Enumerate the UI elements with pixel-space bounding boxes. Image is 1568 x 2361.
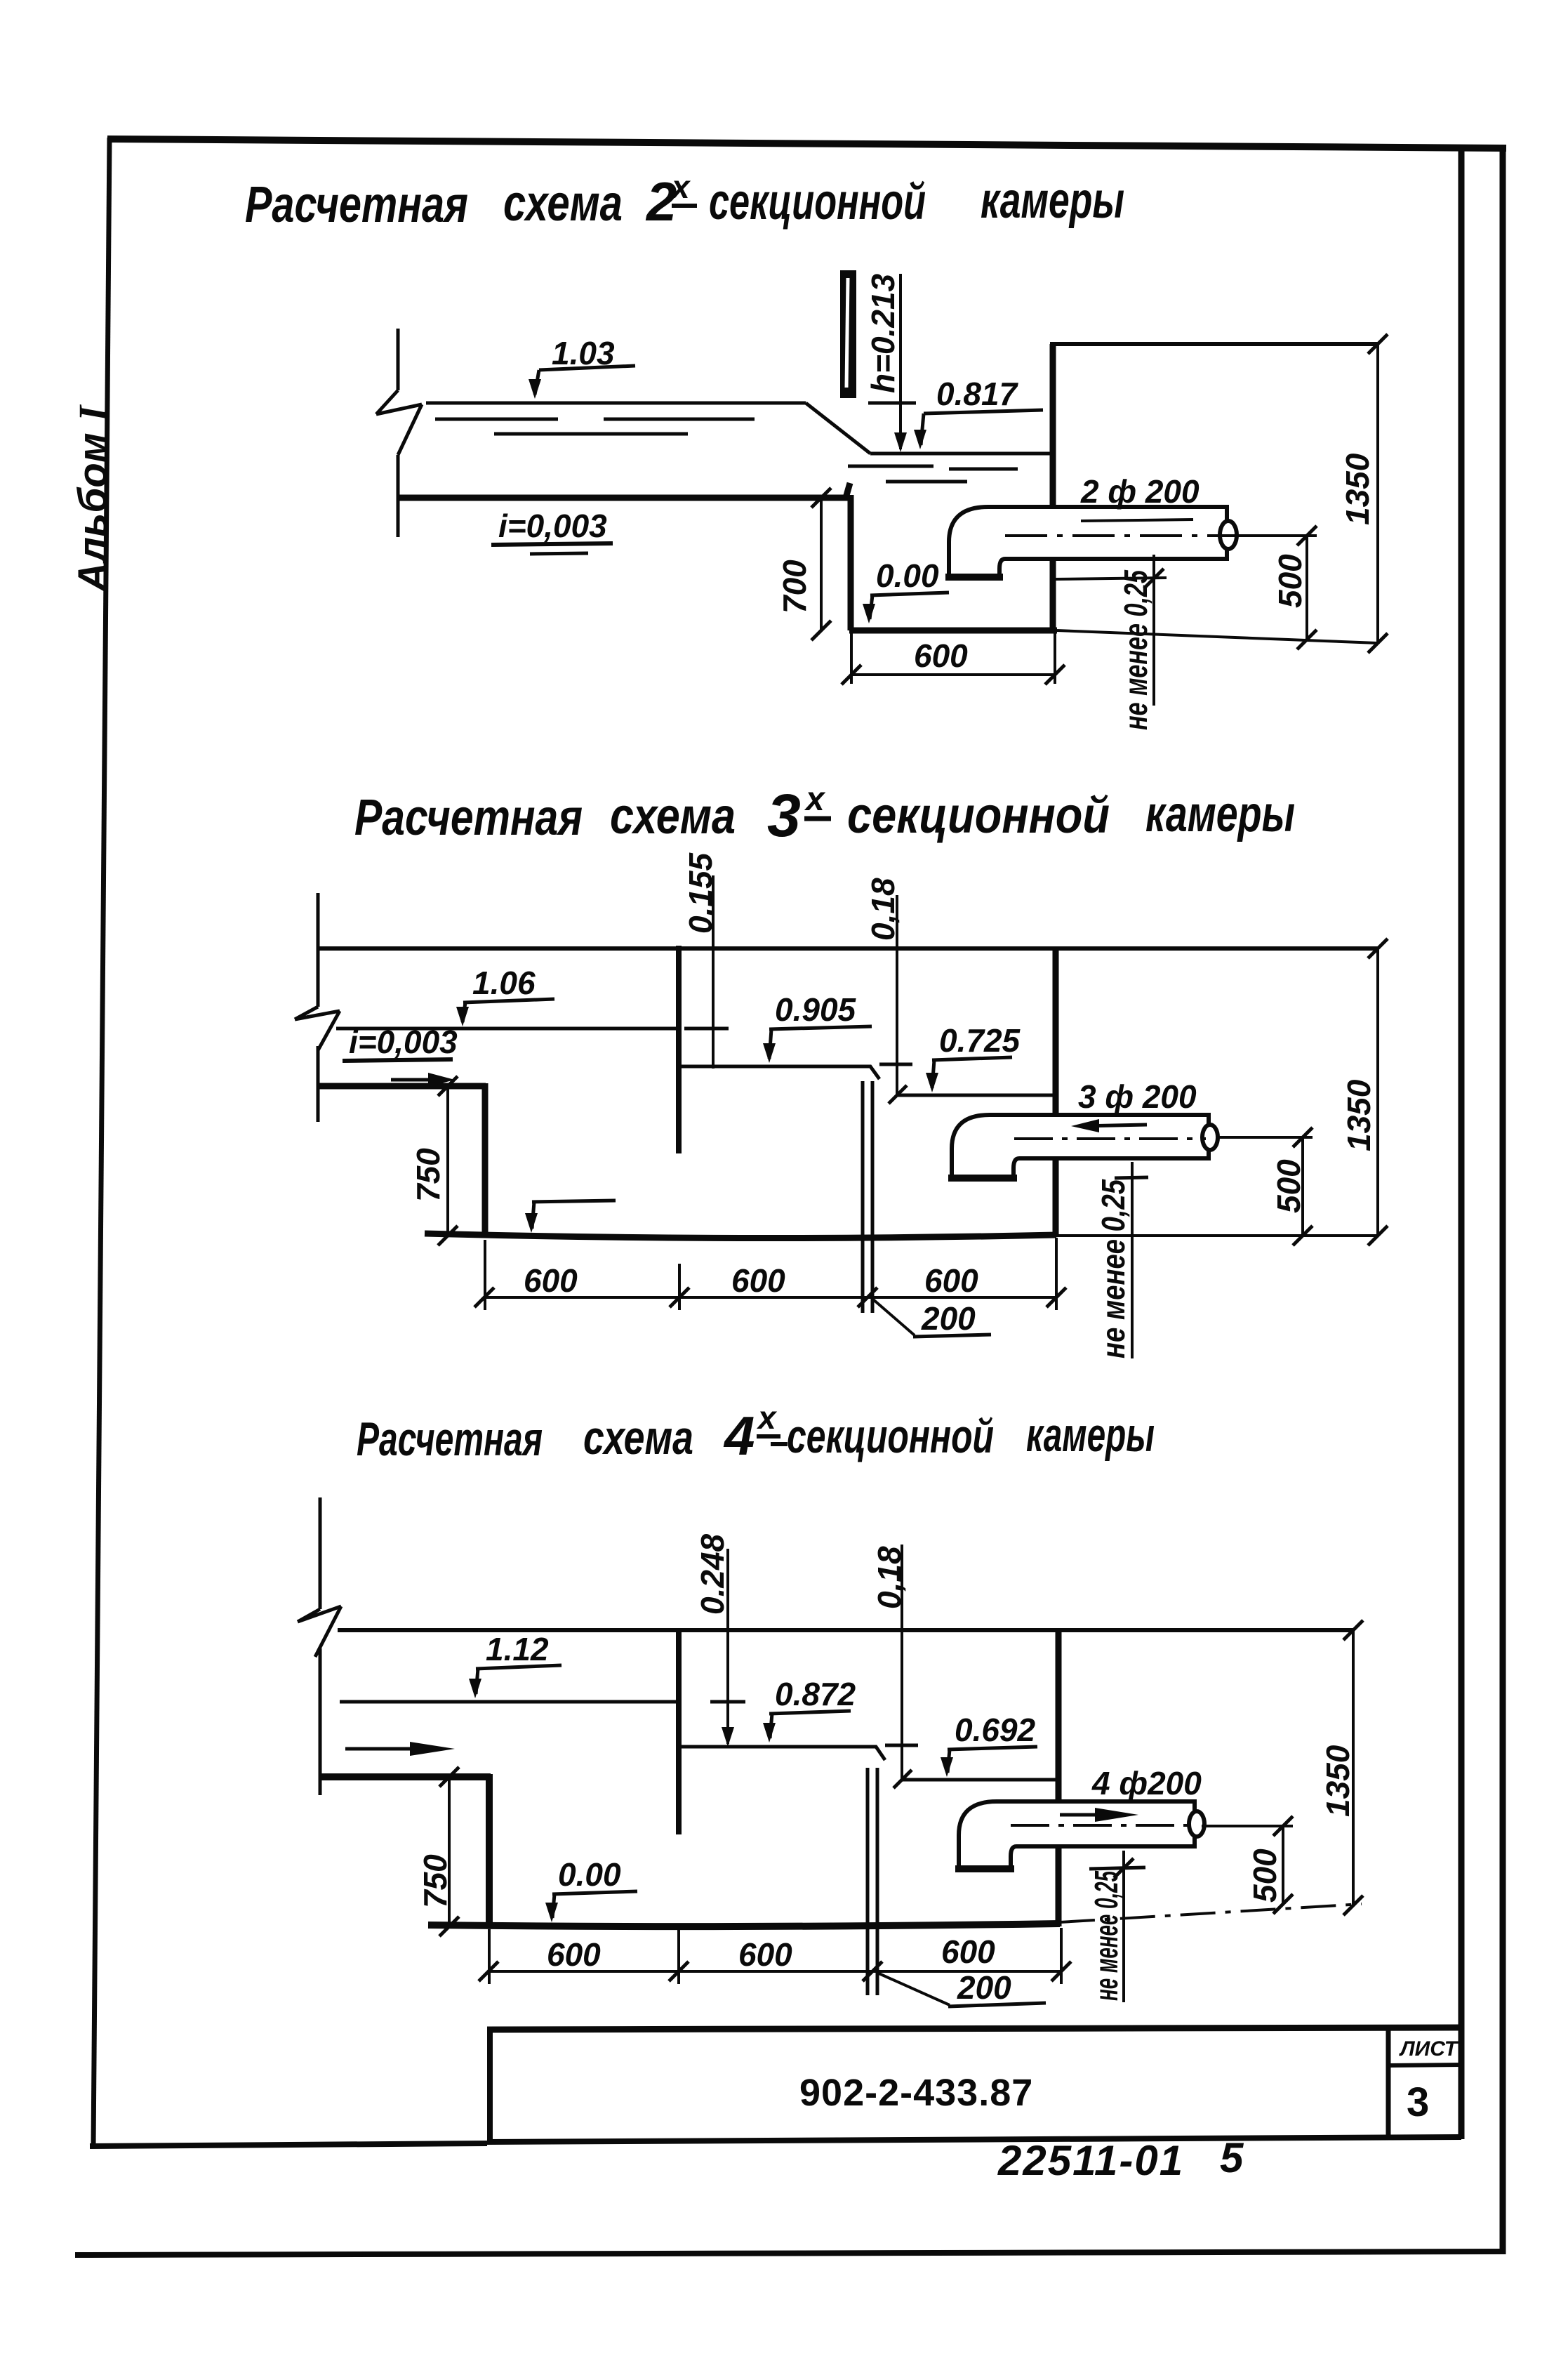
ceiling line <box>318 946 1378 951</box>
water surface 1 <box>426 402 806 405</box>
water surface 3 <box>902 1778 1058 1782</box>
svg-text:1350: 1350 <box>1339 453 1376 525</box>
svg-text:200: 200 <box>921 1300 976 1337</box>
pit floor <box>428 1924 1060 1926</box>
tick ceiling/1350 <box>1368 939 1388 958</box>
svg-text:Расчетная: Расчетная <box>245 177 468 233</box>
leader 0.00 <box>545 1891 637 1922</box>
svg-text:0.155: 0.155 <box>682 852 719 934</box>
water surface 3 <box>897 1094 1056 1097</box>
dimension 500 <box>1221 526 1317 649</box>
pit floor extension <box>1057 630 1378 643</box>
svg-text:5: 5 <box>1220 2134 1244 2181</box>
dimension 700 <box>811 488 831 640</box>
svg-text:0.817: 0.817 <box>936 376 1019 412</box>
ceiling line <box>338 1628 1353 1632</box>
border frame left <box>93 138 109 2147</box>
water surface 2 <box>870 452 1050 456</box>
svg-text:0.725: 0.725 <box>939 1022 1021 1059</box>
svg-text:0.00: 0.00 <box>558 1856 621 1893</box>
dimension 1350 <box>1343 1630 1363 1915</box>
svg-text:0,18: 0,18 <box>865 878 901 941</box>
weir plate (hatched bar) <box>840 270 856 398</box>
tick water 3 <box>893 1770 912 1788</box>
svg-text:500: 500 <box>1247 1849 1283 1903</box>
svg-text:600: 600 <box>524 1262 578 1299</box>
flow arrow <box>345 1747 421 1751</box>
water slope over weir <box>806 403 870 454</box>
title block bottom <box>487 2137 1461 2142</box>
title block top <box>487 2028 1461 2030</box>
partition 2 (double line) <box>868 1768 877 1995</box>
pipe end cap <box>1202 1125 1218 1150</box>
svg-text:200: 200 <box>957 1969 1011 2006</box>
dimension 500 <box>1202 1816 1293 1914</box>
title 2: Расчетная схема 3х секционной камеры <box>354 781 1295 849</box>
svg-text:750: 750 <box>417 1854 453 1908</box>
dimension 0,18 extension <box>879 895 912 1095</box>
label i=0.003 <box>491 508 613 554</box>
leader 200 <box>872 1299 991 1337</box>
pipe end cap <box>1189 1811 1204 1837</box>
svg-text:схема: схема <box>503 176 623 232</box>
pipe centerline <box>1014 1137 1206 1140</box>
partition 1 <box>676 1630 682 1834</box>
svg-text:секционной: секционной <box>787 1410 994 1463</box>
border frame bottom <box>90 2143 487 2146</box>
svg-text:секционной: секционной <box>847 788 1110 844</box>
partition 1 <box>676 946 682 1153</box>
svg-text:1.03: 1.03 <box>552 335 615 371</box>
svg-text:1350: 1350 <box>1341 1079 1377 1151</box>
leader 0.692 <box>941 1747 1037 1777</box>
leader 1.06 <box>456 999 554 1026</box>
svg-text:500: 500 <box>1272 554 1308 608</box>
water surface 2 <box>681 1066 879 1079</box>
bottom dimension chain 600/600/600 <box>474 1238 1066 1310</box>
svg-text:600: 600 <box>914 637 968 674</box>
tick ceiling/1350 <box>1343 1620 1363 1640</box>
pit floor dash-dot extension <box>1060 1904 1362 1922</box>
drop wall <box>486 1774 493 1926</box>
svg-text:Альбом I: Альбом I <box>70 404 116 593</box>
pit floor <box>849 628 1057 634</box>
svg-text:4 ф200: 4 ф200 <box>1091 1765 1202 1801</box>
pit floor extension <box>1056 1234 1378 1237</box>
leader 0.725 <box>926 1057 1012 1092</box>
leader 0.872 <box>763 1711 851 1742</box>
drop wall <box>482 1083 489 1237</box>
pipe elbow mouth <box>945 574 1003 581</box>
dimension 750 <box>439 1767 459 1936</box>
dimension 500 <box>1217 1127 1313 1245</box>
лист box divider horizontal <box>1388 2065 1461 2065</box>
svg-text:750: 750 <box>410 1148 446 1202</box>
pipe 2x200 body <box>949 507 1227 578</box>
channel left edge line with break <box>298 1497 341 1795</box>
svg-text:i=0,003: i=0,003 <box>498 508 607 544</box>
tick ceiling/1350 <box>1368 334 1388 354</box>
bottom dimension chain 600/600/600 <box>479 1926 1071 1984</box>
label i=0.003 <box>343 1024 458 1061</box>
svg-text:Расчетная: Расчетная <box>354 790 583 846</box>
svg-text:h=0.213: h=0.213 <box>865 274 901 393</box>
svg-text:0.872: 0.872 <box>775 1676 856 1712</box>
svg-text:не менее 0,25: не менее 0,25 <box>1088 1870 1124 2001</box>
h dimension line <box>868 274 916 452</box>
svg-text:600: 600 <box>941 1933 995 1970</box>
pipe 3x200 body <box>952 1115 1209 1179</box>
leader 0.817 <box>914 410 1043 449</box>
svg-text:х: х <box>670 168 691 205</box>
water dashes <box>435 419 1018 482</box>
chamber ceiling <box>1050 342 1378 346</box>
svg-text:х: х <box>756 1399 778 1436</box>
svg-text:700: 700 <box>776 560 813 614</box>
svg-text:0,18: 0,18 <box>871 1546 908 1609</box>
svg-text:камеры: камеры <box>981 173 1124 229</box>
pipe 4x200 body <box>959 1801 1195 1870</box>
svg-text:600: 600 <box>924 1262 978 1299</box>
pipe end cap <box>1220 521 1237 549</box>
dimension 1350 <box>1368 948 1388 1245</box>
dimension 750 <box>438 1076 458 1245</box>
svg-text:0.00: 0.00 <box>876 557 939 594</box>
flow arrow on floor <box>391 1078 435 1082</box>
svg-text:1.12: 1.12 <box>486 1631 549 1667</box>
leader 200 <box>877 1973 1046 2006</box>
dimension 600 (bottom) <box>842 633 1065 685</box>
right chamber wall <box>1050 344 1056 630</box>
dimension 0.248 extension <box>710 1549 745 1747</box>
svg-text:600: 600 <box>731 1262 785 1299</box>
pipe flow arrow (left) <box>1071 1119 1147 1132</box>
svg-text:3: 3 <box>1407 2079 1429 2125</box>
border frame outer right <box>1500 145 1506 2254</box>
svg-text:4: 4 <box>723 1405 755 1467</box>
svg-text:Расчетная: Расчетная <box>357 1413 543 1466</box>
extension line не менее 0,25 <box>1115 1162 1148 1358</box>
leader (unlabeled 0.00) <box>525 1201 616 1233</box>
extension line не менее 0,25 <box>1089 1851 1145 2002</box>
title block left <box>487 2028 493 2143</box>
water surface 2 <box>679 1747 885 1760</box>
pipe elbow mouth <box>955 1865 1014 1872</box>
water surface 1 <box>336 1027 677 1031</box>
dimension 0,18 extension <box>885 1545 918 1780</box>
channel floor <box>398 483 850 498</box>
svg-text:схема: схема <box>583 1411 693 1464</box>
title 3: Расчетная схема 4х-секционной камеры <box>357 1399 1155 1467</box>
svg-text:камеры: камеры <box>1145 786 1295 842</box>
leader 1.03 <box>529 366 635 399</box>
svg-text:схема: схема <box>610 788 736 845</box>
svg-text:секционной: секционной <box>709 174 926 230</box>
border frame top <box>107 139 1506 148</box>
channel left edge line with break <box>295 893 340 1122</box>
svg-text:не менее 0,25: не менее 0,25 <box>1095 1179 1131 1358</box>
pipe inner line <box>1081 520 1193 521</box>
right chamber wall <box>1056 1630 1062 1926</box>
leader 1.12 <box>469 1665 562 1698</box>
pit floor (slight sag) <box>425 1234 1056 1238</box>
dimension 1350 <box>1368 344 1388 653</box>
svg-text:ЛИСТ: ЛИСТ <box>1399 2037 1459 2061</box>
svg-text:902-2-433.87: 902-2-433.87 <box>799 2072 1033 2114</box>
svg-text:х: х <box>804 781 826 818</box>
channel floor <box>320 1773 491 1780</box>
leader 0.905 <box>763 1026 872 1063</box>
svg-text:2 ф 200: 2 ф 200 <box>1080 473 1200 510</box>
leader 0.00 <box>863 593 949 623</box>
channel floor <box>318 1083 486 1090</box>
svg-text:0.905: 0.905 <box>775 991 857 1028</box>
album label "Альбом I" <box>70 404 116 593</box>
svg-text:не менее 0,25: не менее 0,25 <box>1117 569 1154 730</box>
svg-text:3 ф 200: 3 ф 200 <box>1078 1078 1197 1115</box>
tick water 3 <box>889 1085 907 1104</box>
svg-text:3: 3 <box>767 782 801 849</box>
pipe elbow mouth <box>948 1175 1017 1182</box>
partition 2 (double line) <box>863 1081 872 1313</box>
svg-text:500: 500 <box>1270 1159 1307 1213</box>
extension line не менее 0,25 <box>1053 555 1167 706</box>
svg-text:0.692: 0.692 <box>955 1712 1036 1748</box>
drop wall <box>848 495 854 630</box>
right chamber wall <box>1053 948 1059 1237</box>
svg-text:22511-01: 22511-01 <box>997 2137 1184 2184</box>
dimension 0.155 extension <box>684 875 733 1069</box>
svg-text:0.248: 0.248 <box>694 1533 731 1615</box>
pipe centerline <box>1011 1824 1192 1827</box>
sheet bottom outer line <box>75 2251 1505 2255</box>
лист box divider vertical <box>1386 2029 1391 2138</box>
svg-text:i=0,003: i=0,003 <box>349 1024 458 1060</box>
border frame inner right <box>1459 145 1465 2139</box>
pipe centerline <box>1005 534 1225 537</box>
pipe flow arrow (right) <box>1060 1808 1138 1822</box>
svg-text:камеры: камеры <box>1026 1408 1155 1462</box>
svg-text:600: 600 <box>738 1936 792 1973</box>
svg-text:1.06: 1.06 <box>472 965 536 1001</box>
svg-text:600: 600 <box>547 1936 601 1973</box>
svg-text:1350: 1350 <box>1320 1745 1356 1817</box>
channel left edge line with break <box>376 329 422 537</box>
water surface 1 <box>340 1700 679 1704</box>
title 1: Расчетная схема 2х секционной камеры <box>245 168 1124 233</box>
